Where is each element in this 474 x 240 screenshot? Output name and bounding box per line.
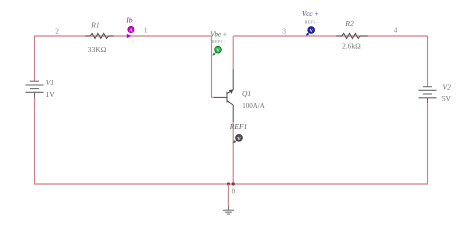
svg-text:Q1: Q1 [242, 89, 251, 98]
transistor arrow (emitter) [229, 89, 234, 93]
wire top-right horizontal (collector branch to node 3, node 4) [234, 35, 428, 37]
svg-text:33KΩ: 33KΩ [88, 45, 107, 54]
svg-text:R1: R1 [90, 20, 99, 29]
emitter vertical stub [232, 69, 234, 90]
junction dot emitter/bottom wire [232, 182, 235, 185]
svg-text:V1: V1 [46, 78, 54, 87]
wire right vertical lower [427, 103, 429, 184]
svg-text:1: 1 [144, 26, 148, 35]
svg-text:Ib: Ib [125, 16, 132, 25]
base bar [226, 92, 228, 103]
resistor R2 [336, 33, 368, 38]
svg-text:2: 2 [55, 26, 59, 35]
wire base branch horizontal [212, 96, 215, 98]
resistor R1 [85, 33, 114, 38]
probe Vcc circle [308, 27, 315, 34]
wire left vertical lower [34, 98, 36, 184]
svg-text:REF1: REF1 [229, 122, 248, 131]
battery V1 [26, 81, 44, 98]
svg-text:R2: R2 [344, 19, 354, 28]
emitter diagonal (top, with arrow) [227, 90, 233, 94]
svg-text:Vbe +: Vbe + [210, 32, 227, 39]
svg-text:0: 0 [232, 187, 236, 195]
wire right vertical upper [427, 36, 429, 87]
wire ground stub [227, 184, 229, 207]
probe Ib current probe arrow on wire [127, 34, 131, 38]
svg-text:2.6kΩ: 2.6kΩ [342, 41, 361, 50]
transistor Q1 [214, 69, 233, 122]
ground [223, 207, 234, 215]
base lead [214, 96, 227, 98]
wire left vertical upper [34, 36, 36, 81]
svg-text:Vcc +: Vcc + [302, 10, 319, 18]
wire base branch vertical [211, 36, 213, 97]
svg-text:3: 3 [282, 26, 286, 35]
svg-text:100A/A: 100A/A [242, 102, 265, 110]
collector diagonal (bottom) [227, 101, 233, 105]
svg-text:REF1 -: REF1 - [305, 20, 319, 25]
svg-text:4: 4 [394, 26, 398, 35]
probe Ib circle [128, 26, 134, 32]
probe Vcc pointer [307, 32, 310, 35]
wire bottom horizontal [34, 183, 428, 185]
junction dot ground/bottom wire [227, 182, 230, 185]
wire collector branch vertical [232, 36, 234, 70]
wire emitter to bottom [232, 122, 234, 184]
svg-text:5V: 5V [442, 94, 452, 103]
probe Vbe pointer [213, 52, 216, 55]
probe REF1 pointer [234, 140, 237, 142]
probe Vbe circle [215, 46, 222, 53]
svg-text:V2: V2 [443, 83, 452, 92]
collector vertical stub [232, 105, 234, 122]
svg-text:REF1 -: REF1 - [212, 39, 226, 44]
wire top-left horizontal (node 2 to node 1 to base branch) [34, 35, 212, 37]
probe REF1 circle [236, 134, 243, 141]
battery V2 [419, 87, 437, 103]
svg-text:1V: 1V [46, 90, 56, 99]
